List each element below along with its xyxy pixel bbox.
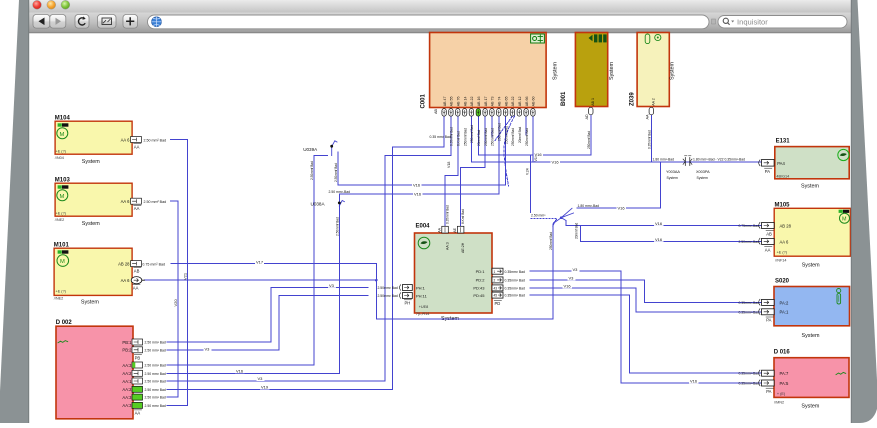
wire E004 top pin AE2H riser xyxy=(461,116,486,226)
svg-text:AA:3: AA:3 xyxy=(122,395,132,400)
svg-text:1.80 mm²-Bad: 1.80 mm²-Bad xyxy=(578,204,600,208)
ECU Z039 (pale yellow) xyxy=(630,33,670,107)
svg-text:AB 65: AB 65 xyxy=(504,97,508,107)
svg-text:V16: V16 xyxy=(690,379,698,384)
svg-text:AA: AA xyxy=(646,114,650,120)
svg-text:V16: V16 xyxy=(414,192,422,197)
svg-text:C001: C001 xyxy=(421,93,427,108)
svg-text:AA: AA xyxy=(765,247,771,252)
svg-text:AA: AA xyxy=(438,227,442,232)
svg-text:PH: PH xyxy=(405,300,411,305)
svg-text:250mmf Bad: 250mmf Bad xyxy=(525,128,529,146)
wire net V21 vertical xyxy=(186,140,188,406)
wire upper V16 line A to B001 xyxy=(478,116,591,155)
svg-text:2.50 mm² Bad: 2.50 mm² Bad xyxy=(145,364,166,368)
svg-text:AA: AA xyxy=(133,285,139,290)
svg-text:AD: AD xyxy=(585,114,589,120)
svg-text:8.Kmf Bad: 8.Kmf Bad xyxy=(461,209,465,224)
junction V17/AA6 xyxy=(375,279,378,282)
M105 pin AB28 xyxy=(738,222,791,236)
svg-text:PD:45: PD:45 xyxy=(473,293,485,298)
svg-text:AE: AE xyxy=(453,227,457,232)
wire name labels with white backing xyxy=(204,152,699,390)
Y003AA connector labels xyxy=(653,157,746,180)
ECU D016 (pink) xyxy=(774,350,849,410)
wire D002.PB1 to E004.PH1 xyxy=(167,288,368,343)
svg-text:AA 2: AA 2 xyxy=(651,98,655,106)
wire V17 vertical drop xyxy=(375,264,377,319)
svg-text:D 016: D 016 xyxy=(774,350,791,356)
svg-text:AB: AB xyxy=(134,269,140,274)
wire M101.AA6 horizontal xyxy=(145,279,377,281)
wire D002.PB2 to E004.PH11 xyxy=(167,296,368,350)
svg-text:V18: V18 xyxy=(447,162,451,168)
svg-text:2.50 mm² Bad: 2.50 mm² Bad xyxy=(144,200,167,204)
ECU E004 (green) xyxy=(415,224,493,323)
wire V50 vertical to splice xyxy=(529,155,531,213)
svg-text:2.50mmf Bad: 2.50mmf Bad xyxy=(310,161,314,180)
svg-text:+E (?): +E (?) xyxy=(777,250,788,254)
svg-text:PH:1: PH:1 xyxy=(416,285,426,290)
svg-text:250mmf Bad: 250mmf Bad xyxy=(587,131,591,149)
svg-text:Y003AA: Y003AA xyxy=(666,170,680,174)
svg-text:2.50 mm² Bad: 2.50 mm² Bad xyxy=(144,138,167,142)
globe favicon xyxy=(152,17,162,27)
svg-text:PD: PD xyxy=(495,301,501,306)
svg-text:V20: V20 xyxy=(173,299,178,307)
svg-text:250mmf Bad: 250mmf Bad xyxy=(504,126,508,144)
C001 pin row xyxy=(442,109,535,117)
svg-text:V21: V21 xyxy=(182,272,187,280)
svg-text:2.50mmf Bad: 2.50mmf Bad xyxy=(334,163,338,182)
wire B001.AB1 drop xyxy=(590,115,592,156)
svg-text:2.50 mm²-Bad: 2.50 mm²-Bad xyxy=(329,190,351,194)
separator xyxy=(712,19,716,24)
svg-text:2.50 mm² Bad: 2.50 mm² Bad xyxy=(145,372,166,376)
E004 pin PH1 xyxy=(377,285,425,291)
svg-text:V16: V16 xyxy=(535,152,543,157)
svg-text:8.Kmf Bad: 8.Kmf Bad xyxy=(457,131,461,146)
connector U039A symbol xyxy=(303,141,337,156)
svg-text:AA: AA xyxy=(134,206,140,211)
svg-text:V3: V3 xyxy=(573,267,579,272)
svg-text:System: System xyxy=(802,262,820,268)
svg-text:System: System xyxy=(82,221,100,227)
svg-text:M: M xyxy=(60,132,65,138)
svg-text:+ (E): + (E) xyxy=(777,392,786,396)
ECU D002 (pink) xyxy=(56,320,133,419)
svg-text:AB 55: AB 55 xyxy=(450,97,454,107)
D002 pin AA2 xyxy=(122,370,166,376)
E004 pin PD2 xyxy=(476,277,525,283)
svg-text:AA:3: AA:3 xyxy=(122,363,132,368)
svg-text:0.35mmf Bad: 0.35mmf Bad xyxy=(647,130,651,149)
svg-text:V16: V16 xyxy=(413,183,421,188)
wire main V16 line C001-B001-Z039-E131 xyxy=(471,116,761,162)
ECU E131 (green) xyxy=(775,138,849,189)
svg-text:2: 2 xyxy=(494,279,496,283)
M101 pin AB28 xyxy=(118,261,165,274)
svg-text://NE2: //NE2 xyxy=(54,297,64,301)
svg-text:B001: B001 xyxy=(561,91,567,106)
search field xyxy=(718,16,847,28)
svg-text:U039A: U039A xyxy=(303,147,318,152)
E004 top wire size labels rotated xyxy=(446,205,466,224)
svg-text:AB 60: AB 60 xyxy=(532,97,536,107)
svg-text:PA: PA xyxy=(766,389,771,394)
back button xyxy=(33,15,50,29)
D002 group label AA xyxy=(134,409,141,411)
E004 pin PD43 xyxy=(473,285,525,291)
svg-text:PD:2: PD:2 xyxy=(476,278,486,283)
svg-text:250mmf Bad: 250mmf Bad xyxy=(549,232,553,250)
svg-text:AA:2: AA:2 xyxy=(122,387,132,392)
D002 pin AA2 green xyxy=(122,386,166,392)
D002 pin PB1 xyxy=(122,339,166,345)
E004 group label PD xyxy=(494,300,501,302)
motor M105 (yellow) xyxy=(774,202,850,268)
D002 pin PB2 xyxy=(122,347,166,353)
svg-text:AB 1: AB 1 xyxy=(591,98,595,106)
plus button xyxy=(123,15,138,29)
svg-text:System: System xyxy=(553,62,559,80)
svg-text:0.35 mm² Bad: 0.35 mm² Bad xyxy=(430,135,451,139)
wire splice to M105.AB28 xyxy=(566,221,762,226)
svg-text:M104: M104 xyxy=(55,116,71,122)
svg-text:0.35mm² Bad: 0.35mm² Bad xyxy=(505,279,525,283)
D002 pin AA3 xyxy=(122,362,166,368)
svg-text:PA4: PA4 xyxy=(777,161,785,166)
C001 pin number labels xyxy=(443,97,536,107)
svg-text:250mmf Bad: 250mmf Bad xyxy=(470,125,474,143)
wire E004 top pin AA3 riser xyxy=(445,116,458,226)
svg-text:AB 22: AB 22 xyxy=(511,97,515,107)
svg-text:AA:3: AA:3 xyxy=(445,242,449,250)
svg-text:System: System xyxy=(697,176,708,180)
address field xyxy=(148,15,710,29)
E131 pin PA4 xyxy=(759,160,786,174)
svg-text:1.80 mm²-Bad: 1.80 mm²-Bad xyxy=(653,157,675,161)
svg-text:2.50mmf Bad: 2.50mmf Bad xyxy=(335,217,339,236)
svg-text:System: System xyxy=(801,403,819,409)
D016 pin PA5 xyxy=(738,380,788,394)
svg-text:M: M xyxy=(842,217,847,223)
wire M104.AA6 stub xyxy=(170,139,187,141)
splice fan-out xyxy=(553,208,574,226)
svg-text:E004: E004 xyxy=(416,224,431,230)
E004 pin PD1 xyxy=(476,268,525,274)
svg-text://N04: //N04 xyxy=(55,156,64,160)
D002 pin AA3 green 2 xyxy=(122,402,166,408)
svg-text:0.75 mm² Bad: 0.75 mm² Bad xyxy=(142,263,165,267)
ECU C001 (body control module, peach) xyxy=(421,33,547,109)
svg-text:AB 28: AB 28 xyxy=(118,262,130,267)
wire dashed harness option from C001 xyxy=(504,116,515,186)
E004 top pin boxes xyxy=(438,226,464,233)
forward button xyxy=(50,15,66,29)
D016 pin PA7 xyxy=(738,370,788,376)
svg-text:V3: V3 xyxy=(329,283,335,288)
svg-text:AA: AA xyxy=(134,144,140,149)
svg-text:AA 6: AA 6 xyxy=(121,278,131,283)
svg-text:PB:1: PB:1 xyxy=(122,340,132,345)
svg-text:PA:2: PA:2 xyxy=(780,300,789,305)
wire splice branch to M105.AA6 xyxy=(580,226,761,242)
wire riser to splice xyxy=(553,220,557,319)
svg-text:2.50 mm² Bad: 2.50 mm² Bad xyxy=(145,348,166,352)
svg-text:V3: V3 xyxy=(205,346,211,351)
S020 pin PA2 xyxy=(738,299,788,305)
svg-text:V3: V3 xyxy=(569,276,575,281)
E004 group label PH xyxy=(404,299,411,301)
svg-text:1.80 mm²-Bad - V22 0.35mm²-Bad: 1.80 mm²-Bad - V22 0.35mm²-Bad xyxy=(693,157,745,161)
motor M101 (yellow) xyxy=(54,243,132,306)
svg-text:2.50mm² Bad: 2.50mm² Bad xyxy=(377,294,397,298)
wire C001 pin stub xyxy=(525,116,527,135)
svg-text:20mmf Bad: 20mmf Bad xyxy=(477,129,481,146)
svg-text:AA:1: AA:1 xyxy=(122,379,132,384)
svg-text:2.50 mm²: 2.50 mm² xyxy=(531,214,546,218)
svg-text:AA: AA xyxy=(135,411,141,416)
svg-text:AA:3: AA:3 xyxy=(122,403,132,408)
motor M103 (yellow) xyxy=(55,178,132,227)
motor M104 (yellow) xyxy=(55,116,132,165)
svg-text:AA 6: AA 6 xyxy=(780,239,790,244)
svg-text:0.35mm²-Bad: 0.35mm²-Bad xyxy=(738,372,759,376)
svg-text:AB 47: AB 47 xyxy=(443,97,447,107)
svg-text://NF14: //NF14 xyxy=(775,259,786,263)
wire lower V16 horizontal to C001 xyxy=(339,116,499,194)
wire E004.PD45 to D016.PA7 xyxy=(530,295,762,373)
svg-text:2.50 mm² Bad: 2.50 mm² Bad xyxy=(145,404,166,408)
svg-text:PD:1: PD:1 xyxy=(476,269,486,274)
svg-text:AB 22: AB 22 xyxy=(470,97,474,107)
resize button xyxy=(98,15,117,29)
svg-text:System: System xyxy=(802,333,820,339)
svg-text:PA: PA xyxy=(765,169,770,174)
svg-text:AB 17: AB 17 xyxy=(484,97,488,107)
svg-text:PH:11: PH:11 xyxy=(416,293,428,298)
svg-text://MN2: //MN2 xyxy=(774,401,784,405)
M101 pin AA6 (splice pin) xyxy=(121,277,145,291)
svg-text:2.50 mm² Bad: 2.50 mm² Bad xyxy=(145,341,166,345)
svg-text:AA 6: AA 6 xyxy=(121,199,131,204)
svg-text:V16: V16 xyxy=(564,284,572,289)
svg-text:+E (?): +E (?) xyxy=(56,150,67,154)
icon relay in C001 xyxy=(531,34,545,43)
svg-text:0.35mm²-Bad: 0.35mm²-Bad xyxy=(738,310,759,314)
svg-text:AB 76: AB 76 xyxy=(457,97,461,107)
svg-text:AB 73: AB 73 xyxy=(491,97,495,107)
svg-text:+E (?): +E (?) xyxy=(56,212,67,216)
svg-text:PA:7: PA:7 xyxy=(780,371,789,376)
rotated wire size labels mid xyxy=(310,161,578,250)
svg-text:45: 45 xyxy=(494,294,498,298)
D002 group label PB xyxy=(134,354,141,356)
svg-text:V19: V19 xyxy=(261,385,269,390)
svg-text:AB 14: AB 14 xyxy=(463,97,467,107)
svg-text:X003PA: X003PA xyxy=(696,170,710,174)
svg-text:2.50 mm² Bad: 2.50 mm² Bad xyxy=(145,388,166,392)
E004 top pin names rotated xyxy=(445,242,465,253)
svg-text:0.35mm²-Bad: 0.35mm²-Bad xyxy=(738,301,759,305)
svg-text:2.50 mm² Bad: 2.50 mm² Bad xyxy=(145,396,166,400)
connector Y003AA/X003PA symbol xyxy=(683,156,692,166)
svg-text:System: System xyxy=(667,176,678,180)
wire D002.AA3 bottom stub (to V21) xyxy=(167,404,187,406)
svg-text:2.50 mm² Bad: 2.50 mm² Bad xyxy=(145,380,166,384)
svg-text:System: System xyxy=(82,159,100,165)
svg-text:M103: M103 xyxy=(55,178,71,184)
svg-text:2.50mm²-Bad: 2.50mm²-Bad xyxy=(738,240,759,244)
toolbar xyxy=(29,13,852,33)
svg-text:2.50mm² Bad: 2.50mm² Bad xyxy=(377,286,397,290)
svg-text:V16: V16 xyxy=(236,368,244,373)
svg-text:250mmf Bad: 250mmf Bad xyxy=(484,128,488,146)
svg-text:0.35mm² Bad: 0.35mm² Bad xyxy=(505,270,525,274)
svg-text:PB:2: PB:2 xyxy=(122,348,132,353)
svg-text:V16: V16 xyxy=(618,206,626,211)
wire dashed diagonal from C001 xyxy=(495,116,512,141)
svg-text:System: System xyxy=(609,62,615,80)
traffic light yellow xyxy=(47,0,56,9)
E004 pin PH11 xyxy=(377,293,427,299)
M105 pin AA6 xyxy=(738,238,789,252)
svg-text:PB: PB xyxy=(135,355,141,360)
svg-text:AB: AB xyxy=(434,108,438,114)
svg-text:System: System xyxy=(81,299,99,305)
svg-text:PA:1: PA:1 xyxy=(780,310,789,315)
svg-text:M: M xyxy=(60,259,65,265)
svg-text:AA 6: AA 6 xyxy=(121,137,131,142)
svg-text:System: System xyxy=(670,62,676,80)
M103 pin AA6 xyxy=(121,198,166,211)
wire C001 rightmost pin drop V16 xyxy=(532,116,534,162)
ECU B001 (olive) xyxy=(561,33,608,107)
svg-text:43: 43 xyxy=(494,287,498,291)
svg-text:V16: V16 xyxy=(655,221,663,226)
svg-text:Z039: Z039 xyxy=(630,92,636,106)
svg-text:1: 1 xyxy=(494,270,496,274)
wire dotted splice feed xyxy=(531,218,557,220)
svg-text:AB 12: AB 12 xyxy=(518,97,522,107)
wire net V20 vertical xyxy=(177,201,179,397)
svg-text:7(L,R14: 7(L,R14 xyxy=(416,312,430,316)
wire C001 pin stub xyxy=(491,116,493,137)
wire D002.AA2 riser net through U038A xyxy=(167,194,339,373)
svg-text:D 002: D 002 xyxy=(56,320,73,326)
wire E004.PD1 to D016.PA5 xyxy=(530,271,762,383)
icon coil in B001 xyxy=(589,34,607,42)
wire D002.AA2 net V19 to C001 xyxy=(167,116,444,389)
E004 pin PD45 xyxy=(473,292,525,298)
C001 wire size labels below pins xyxy=(447,123,538,175)
wire M103.AA6 stub xyxy=(170,200,178,202)
svg-text:M101: M101 xyxy=(54,243,70,249)
svg-text:4B/G14: 4B/G14 xyxy=(776,175,789,179)
svg-text:20mmf Bad: 20mmf Bad xyxy=(518,126,522,143)
reload button xyxy=(75,15,89,29)
svg-text:AB 74: AB 74 xyxy=(498,97,502,107)
svg-text:S020: S020 xyxy=(775,278,790,284)
svg-text:250mmf Bad: 250mmf Bad xyxy=(498,123,502,141)
wire under E004 horizontal xyxy=(376,318,552,320)
svg-text:V.24: V.24 xyxy=(525,168,529,175)
wire net V17 from M101.AB28 xyxy=(171,263,376,265)
svg-text:0.35mm² Bad: 0.35mm² Bad xyxy=(505,294,525,298)
svg-text:V16: V16 xyxy=(552,160,560,165)
S020 pin PA1 xyxy=(738,309,788,323)
svg-text:AB 16: AB 16 xyxy=(477,97,481,107)
title bar xyxy=(29,0,852,13)
svg-text:V17: V17 xyxy=(256,259,264,264)
wire D002.AA1 net V3 to C001 xyxy=(167,116,451,381)
svg-text:PA: PA xyxy=(766,318,771,323)
switch S020 (blue) xyxy=(774,278,850,339)
svg-text:AE:2H: AE:2H xyxy=(461,242,465,253)
svg-text:PA:5: PA:5 xyxy=(780,381,789,386)
wire E004.PD2 to S020.PA2 xyxy=(530,280,762,303)
svg-text://NE2: //NE2 xyxy=(55,218,65,222)
svg-text:U038A: U038A xyxy=(311,202,326,207)
svg-text:PD:43: PD:43 xyxy=(473,286,485,291)
svg-text:+E (?): +E (?) xyxy=(56,290,67,294)
D002 pin AA1 xyxy=(122,378,166,384)
wire Z039.AA2 drop xyxy=(650,114,652,163)
svg-text:M105: M105 xyxy=(775,202,791,208)
svg-text:250mmf Bad: 250mmf Bad xyxy=(511,128,515,146)
svg-text:20mmf Bad: 20mmf Bad xyxy=(575,222,579,239)
svg-text:V3: V3 xyxy=(258,376,264,381)
svg-text:0.35mm²-Bad: 0.35mm²-Bad xyxy=(738,382,759,386)
M104 pin AA6 xyxy=(121,137,166,150)
left frame band xyxy=(0,0,29,423)
wire E004.PD43 to S020.PA1 xyxy=(530,288,762,312)
wire D002.AA3 stub (to V20) xyxy=(167,396,178,398)
connector U038A symbol xyxy=(311,201,345,207)
svg-text:Inquisitor: Inquisitor xyxy=(737,18,768,27)
svg-text:0.35mmf Bad: 0.35mmf Bad xyxy=(446,205,450,224)
svg-text:M: M xyxy=(60,194,65,200)
svg-text:0.75mm²-Bad: 0.75mm²-Bad xyxy=(738,224,759,228)
svg-text:+UE8: +UE8 xyxy=(419,305,429,309)
svg-text:System: System xyxy=(801,183,819,189)
D002 pin AA3 green xyxy=(122,394,166,400)
svg-text:0.35mm² Bad: 0.35mm² Bad xyxy=(505,287,525,291)
svg-text:AB 28: AB 28 xyxy=(780,223,792,228)
wire upper V16 horizontal to C001 xyxy=(338,116,506,185)
icon heater element in Z039 xyxy=(645,34,661,44)
svg-text:AB: AB xyxy=(766,231,772,236)
svg-text:250mmf Bad: 250mmf Bad xyxy=(463,128,467,146)
Z039 pin AA2 xyxy=(646,98,656,149)
traffic light green xyxy=(61,0,70,9)
svg-text:AB 66: AB 66 xyxy=(525,97,529,107)
traffic light red xyxy=(33,0,42,9)
svg-text:AA:2: AA:2 xyxy=(122,371,132,376)
B001 pin AB1 xyxy=(585,98,595,149)
svg-text:V16: V16 xyxy=(655,237,663,242)
svg-text:E131: E131 xyxy=(776,138,791,144)
right frame band xyxy=(851,0,877,423)
wire Y003AA junction drop to splice xyxy=(577,162,661,208)
svg-text:250mmf Bad: 250mmf Bad xyxy=(491,128,495,146)
wire D002.AA3 riser net xyxy=(167,156,328,366)
